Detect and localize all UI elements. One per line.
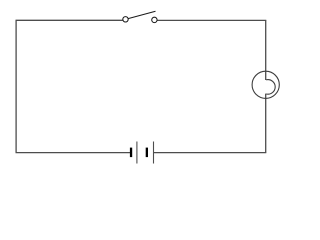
wire top-right horizontal (157, 19, 266, 21)
battery cell 1 positive plate (long thin line) (136, 142, 138, 164)
battery cell 1 negative plate (short thick bar) (130, 148, 132, 158)
battery cell 2 positive plate (long thin line) (153, 142, 155, 164)
battery cell 2 negative plate (short thick bar) (146, 148, 148, 158)
wire bottom-left horizontal (16, 152, 131, 154)
lamp L1 filament half-loop arc (266, 80, 275, 95)
switch S1 arm (open blade) (128, 11, 155, 18)
wire right vertical upper (265, 20, 267, 80)
wire right vertical lower (265, 94, 267, 153)
switch S1 right contact circle (152, 17, 157, 22)
switch S1 left contact circle (123, 17, 128, 22)
wire left vertical (15, 20, 17, 152)
lamp L1 outer circle (252, 71, 279, 98)
wire bottom-right horizontal (154, 152, 267, 154)
wire top-left horizontal (16, 19, 123, 21)
